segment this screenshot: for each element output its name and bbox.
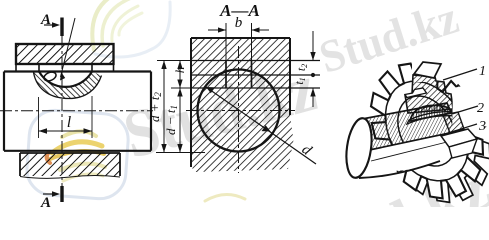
svg-text:h: h bbox=[172, 67, 187, 74]
svg-text:A: A bbox=[40, 195, 51, 207]
svg-text:A: A bbox=[40, 12, 51, 28]
svg-text:1: 1 bbox=[479, 64, 486, 79]
svg-text:t1: t1 bbox=[292, 77, 307, 84]
svg-text:2: 2 bbox=[477, 101, 484, 116]
svg-text:t2: t2 bbox=[294, 64, 309, 71]
svg-text:l: l bbox=[67, 114, 72, 131]
svg-text:d: d bbox=[299, 142, 315, 160]
svg-text:d − t1: d − t1 bbox=[163, 105, 179, 135]
svg-text:3: 3 bbox=[478, 119, 486, 134]
svg-text:b: b bbox=[235, 15, 243, 31]
svg-text:d + t2: d + t2 bbox=[147, 92, 163, 122]
